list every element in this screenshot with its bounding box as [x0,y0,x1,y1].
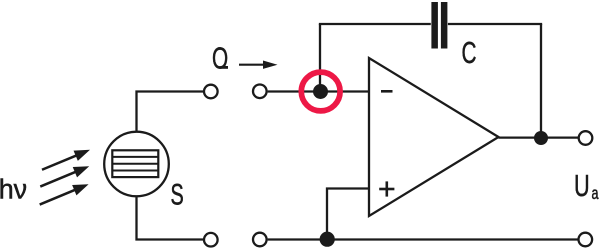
sensor S grid line 1 [112,156,158,158]
svg-text:hν: hν [0,173,27,205]
sensor S photocell circle [104,132,169,197]
node summing junction dot [313,84,328,99]
sensor S grid line 2 [112,163,158,165]
wire noninverting input [327,189,369,240]
light arrow 1 [40,145,92,175]
wire feedback top rail right [448,23,542,25]
wire bottom rail [268,238,579,240]
terminal output open circle [579,131,593,145]
red highlight ring [301,72,340,111]
wire output [499,136,579,138]
svg-text:a: a [592,184,599,204]
wire output riser [540,24,542,138]
terminal bottom-right output open circle [579,233,593,247]
terminal top-left open circle [204,85,218,99]
sensor S inner grid rect [112,150,158,177]
node ground junction dot [320,232,335,247]
wire inverting input [268,90,369,92]
terminal top-right open circle [253,85,267,99]
op-amp plus sign [379,181,394,196]
wire feedback riser [319,24,321,92]
wire sensor top lead [137,92,204,131]
svg-text:O: O [212,40,228,75]
light arrow 3 [38,179,91,210]
capacitor C left plate [431,2,438,49]
terminal bottom-left open circle [204,233,218,247]
label Q tail [221,66,229,69]
op-amp U1 triangle [369,58,499,216]
node output dot [534,131,548,145]
svg-text:C: C [462,35,477,70]
svg-text:S: S [171,179,184,212]
wire feedback top rail left [319,23,431,25]
op-amp minus sign [381,90,393,93]
light arrow 2 [38,161,91,192]
wire sensor bottom lead [137,197,204,239]
capacitor C right plate [441,2,448,49]
svg-text:U: U [574,168,590,203]
arrow for Q [239,61,278,69]
terminal bottom-right open circle [253,233,267,247]
sensor S grid line 3 [112,170,158,172]
